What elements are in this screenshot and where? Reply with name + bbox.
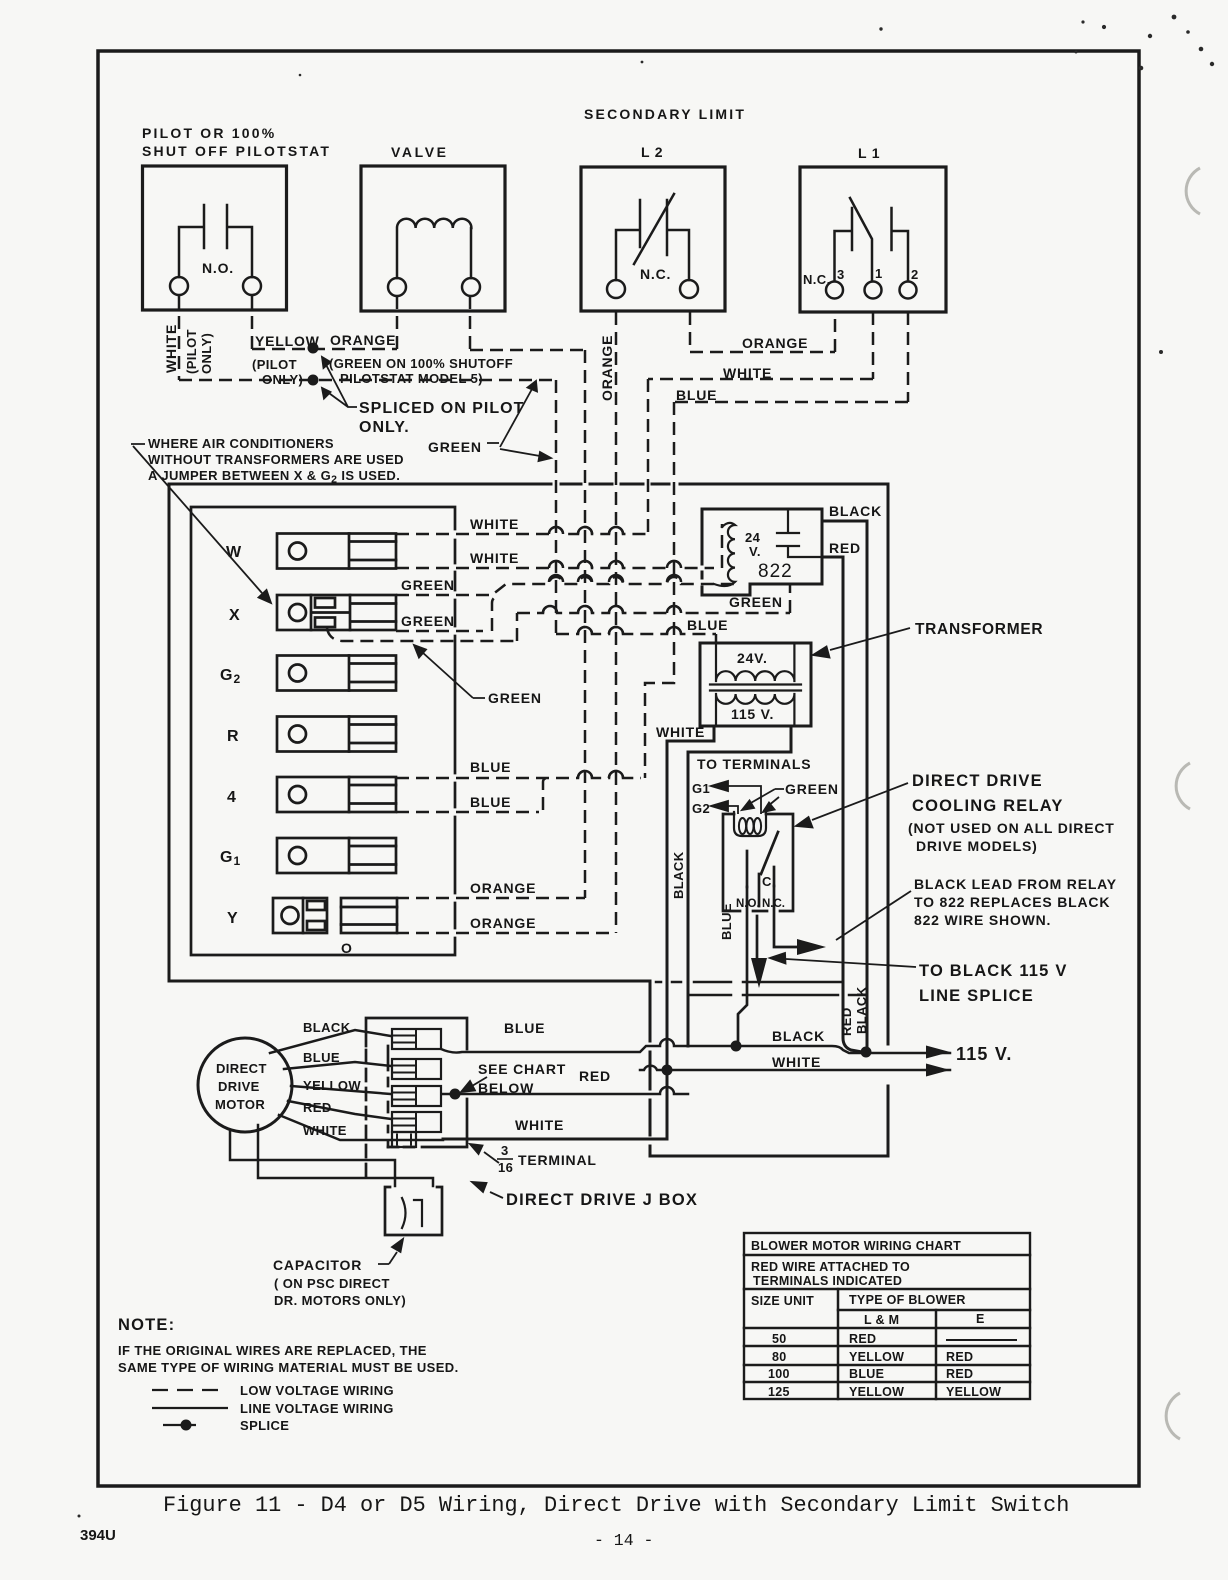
- svg-text:O: O: [341, 940, 353, 956]
- arrow j-box label: [472, 1182, 503, 1198]
- svg-text:SPLICED ON PILOT: SPLICED ON PILOT: [359, 400, 524, 417]
- arrow black lead: [836, 891, 911, 940]
- svg-text:A JUMPER BETWEEN X & G2 IS USE: A JUMPER BETWEEN X & G2 IS USED.: [148, 468, 400, 486]
- green label dash and arrows: [749, 789, 784, 806]
- svg-text:Y: Y: [227, 910, 239, 927]
- svg-text:GREEN: GREEN: [401, 577, 455, 593]
- svg-text:BLACK: BLACK: [854, 986, 869, 1034]
- svg-text:Figure 11 - D4 or D5 Wiring, D: Figure 11 - D4 or D5 Wiring, Direct Driv…: [163, 1493, 1069, 1518]
- relay armature: [761, 832, 778, 874]
- svg-text:WHITE: WHITE: [656, 724, 705, 740]
- wire spliced corner down: [555, 380, 558, 634]
- legend solid sample: [152, 1407, 228, 1409]
- svg-text:ORANGE: ORANGE: [330, 332, 396, 348]
- dashed wires from terminal strip: [327, 524, 790, 933]
- svg-text:RED: RED: [303, 1100, 332, 1115]
- wire orange-1 from Y top: [396, 897, 585, 900]
- svg-text:C: C: [762, 874, 772, 889]
- j-box terminal 4: [392, 1112, 441, 1132]
- wire pilot-left white down: [178, 296, 181, 380]
- svg-text:115 V.: 115 V.: [731, 706, 774, 722]
- table row lines: [744, 1255, 1030, 1382]
- L2 switch N.C.: [616, 200, 689, 280]
- wire orange L2 to L1-3: [690, 351, 835, 354]
- wire valve-right orange down: [469, 296, 472, 350]
- L1 box: [800, 167, 946, 312]
- svg-text:YELLOW: YELLOW: [849, 1385, 904, 1399]
- relay box: [723, 814, 793, 911]
- wire black 115v segments: [656, 981, 842, 984]
- svg-text:BLUE: BLUE: [303, 1050, 340, 1065]
- svg-text:BLACK: BLACK: [829, 503, 882, 519]
- L2 N.C. slash: [634, 194, 674, 264]
- svg-text:YELLOW: YELLOW: [849, 1350, 904, 1364]
- terminal W: [277, 534, 396, 569]
- arrow capacitor label: [378, 1239, 403, 1264]
- svg-text:G1: G1: [692, 781, 710, 796]
- arrow green label down to wire: [500, 449, 540, 456]
- legend splice dot: [181, 1420, 192, 1431]
- wire white L1-1 horizontal: [648, 378, 873, 381]
- svg-text:BLACK LEAD FROM RELAY: BLACK LEAD FROM RELAY: [914, 876, 1117, 892]
- wire L1-2 blue down: [907, 312, 910, 402]
- svg-text:BLUE: BLUE: [849, 1367, 884, 1381]
- arrow to black 115v: [786, 959, 916, 967]
- svg-text:PILOT OR 100%: PILOT OR 100%: [142, 125, 276, 141]
- scan punch marks: [1166, 168, 1200, 1439]
- terminal strip box: [191, 507, 455, 955]
- wire L1-1 white down: [872, 312, 875, 379]
- note block: [118, 1316, 459, 1375]
- valve coil: [397, 219, 471, 278]
- 822 outline: [702, 509, 822, 595]
- svg-text:PILOTSTAT MODEL 5): PILOTSTAT MODEL 5): [340, 371, 483, 386]
- wire orange-2 from Y bottom: [396, 932, 616, 935]
- j-box 3/16 terminal: [392, 1132, 416, 1147]
- wire valve-left orange down: [396, 296, 399, 349]
- direct drive motor: [198, 1038, 292, 1132]
- wire white pilot-only horizontal: [179, 379, 556, 382]
- svg-text:(NOT USED ON ALL DIRECT: (NOT USED ON ALL DIRECT: [908, 820, 1115, 836]
- svg-text:TO BLACK 115 V: TO BLACK 115 V: [919, 962, 1068, 980]
- transformer 115V winding: [716, 694, 794, 726]
- relay NO contact bar: [746, 851, 749, 887]
- svg-text:RED: RED: [849, 1332, 876, 1346]
- 3/16 terminal label: [498, 1143, 597, 1175]
- svg-text:100: 100: [768, 1367, 790, 1381]
- transformer outline: [700, 643, 811, 726]
- splice dot white line: [662, 1065, 673, 1076]
- svg-text:LOW VOLTAGE WIRING: LOW VOLTAGE WIRING: [240, 1383, 394, 1398]
- svg-text:BLUE: BLUE: [676, 387, 717, 403]
- relay NO lead down to splice: [738, 887, 747, 1046]
- splice dot yellow-orange: [308, 343, 319, 354]
- table dash cell: [947, 1339, 1016, 1341]
- transformer white lead + j-box white wire: [443, 726, 714, 1139]
- svg-text:80: 80: [772, 1350, 787, 1364]
- svg-text:4: 4: [227, 789, 237, 806]
- splice dots top: [308, 343, 319, 386]
- svg-text:BLUE: BLUE: [470, 794, 511, 810]
- pilotstat switch contacts N.O.: [179, 205, 252, 277]
- svg-text:DRIVE: DRIVE: [218, 1079, 260, 1094]
- enclosure bottom-left edge: [169, 980, 650, 983]
- right side callout texts: [908, 621, 1117, 1005]
- wire hop arcs (solid overdraw): [543, 527, 681, 778]
- svg-text:GREEN: GREEN: [428, 439, 482, 455]
- svg-text:DRIVE MODELS): DRIVE MODELS): [916, 838, 1038, 854]
- relay C big down arrowhead: [751, 958, 767, 988]
- splice dot black line: [861, 1047, 872, 1058]
- svg-text:TYPE OF BLOWER: TYPE OF BLOWER: [849, 1293, 966, 1307]
- svg-text:WHITE: WHITE: [470, 550, 519, 566]
- svg-text:LINE SPLICE: LINE SPLICE: [919, 987, 1034, 1005]
- svg-text:WHITE: WHITE: [303, 1123, 347, 1138]
- svg-text:3: 3: [837, 267, 845, 282]
- svg-text:SECONDARY LIMIT: SECONDARY LIMIT: [584, 106, 746, 122]
- svg-text:YELLOW: YELLOW: [946, 1385, 1001, 1399]
- valve box: [361, 166, 505, 311]
- arrow cooling relay: [812, 783, 908, 820]
- svg-text:115 V.: 115 V.: [956, 1044, 1013, 1064]
- wire green-3 from X bottom tab: [327, 584, 790, 641]
- arrow 3/16 to terminal: [470, 1144, 499, 1163]
- wire motor red: [288, 1101, 391, 1119]
- splice dot blue-relay: [731, 1041, 742, 1052]
- pilotstat terminal circles: [170, 277, 188, 295]
- legend dashed sample: [152, 1389, 225, 1391]
- transformer core lines: [710, 685, 801, 691]
- j-box terminal 2: [392, 1059, 441, 1079]
- wire black 115v out: [736, 1046, 950, 1053]
- svg-text:WHITE: WHITE: [515, 1117, 564, 1133]
- svg-text:ORANGE: ORANGE: [599, 335, 615, 401]
- G2 arrow line: [728, 806, 738, 814]
- j-box terminal 1: [392, 1029, 441, 1049]
- wire motor bottom leads to capacitor: [230, 1125, 433, 1186]
- arrow green label up to corner: [500, 389, 532, 447]
- enclosure right edge: [887, 484, 890, 1156]
- svg-text:DIRECT: DIRECT: [216, 1061, 267, 1076]
- wire red-jbox 995 link: [688, 994, 865, 997]
- relay C lead down arrow shaft: [757, 874, 759, 960]
- svg-text:ONLY): ONLY): [199, 333, 214, 374]
- svg-text:N.O.: N.O.: [202, 260, 234, 276]
- svg-text:CAPACITOR: CAPACITOR: [273, 1257, 362, 1273]
- svg-text:TO TERMINALS: TO TERMINALS: [697, 756, 811, 772]
- svg-text:WHERE AIR CONDITIONERS: WHERE AIR CONDITIONERS: [148, 436, 334, 451]
- 822 relay unit: [702, 509, 867, 1052]
- wire j-box red riser: [443, 1087, 688, 1094]
- transformer black lead 115V right: [688, 726, 791, 1046]
- wire red from 822: [822, 557, 862, 1052]
- svg-text:RED: RED: [946, 1350, 973, 1364]
- arrows G1 G2 green: [711, 781, 784, 814]
- svg-text:(GREEN ON 100% SHUTOFF: (GREEN ON 100% SHUTOFF: [329, 356, 513, 371]
- fraction bar: [497, 1158, 513, 1160]
- 822 24V coil zigzag: [714, 523, 735, 586]
- svg-text:RED: RED: [829, 540, 861, 556]
- callout arrows right side: [770, 628, 916, 967]
- wire black from 822: [822, 521, 867, 1048]
- wire orange vertical (valve): [584, 350, 587, 898]
- svg-text:WITHOUT TRANSFORMERS ARE USED: WITHOUT TRANSFORMERS ARE USED: [148, 452, 404, 467]
- secondary limit L2 box: [581, 167, 725, 311]
- wire blue-1 from 4 top: [396, 771, 641, 778]
- svg-text:- 14 -: - 14 -: [594, 1531, 653, 1550]
- terminal G1: [277, 838, 396, 873]
- relay NC lead to arrow: [774, 886, 797, 947]
- svg-text:GREEN: GREEN: [729, 594, 783, 610]
- svg-text:N.C.: N.C.: [762, 898, 785, 910]
- wire yellow-orange splice horizontal: [252, 348, 397, 351]
- capacitor body: [385, 1187, 442, 1235]
- svg-text:WHITE: WHITE: [772, 1054, 821, 1070]
- wire L2-right down: [689, 312, 692, 352]
- svg-text:125: 125: [768, 1385, 790, 1399]
- pilotstat box: [143, 166, 287, 310]
- transformer: [443, 643, 811, 1139]
- bottom area wires: [441, 982, 950, 1094]
- relay NC big arrowhead: [797, 939, 826, 955]
- wire motor black: [270, 1030, 391, 1053]
- j-box wire labels: [303, 1020, 1013, 1138]
- splice dot see-chart: [450, 1089, 461, 1100]
- terminal G2: [277, 656, 396, 691]
- svg-text:IF THE ORIGINAL WIRES ARE REPL: IF THE ORIGINAL WIRES ARE REPLACED, THE: [118, 1343, 427, 1358]
- svg-text:E: E: [976, 1312, 985, 1326]
- svg-text:WHITE: WHITE: [470, 516, 519, 532]
- svg-text:GREEN: GREEN: [401, 613, 455, 629]
- svg-text:W: W: [226, 544, 242, 561]
- svg-text:ORANGE: ORANGE: [470, 880, 536, 896]
- svg-text:L & M: L & M: [864, 1313, 899, 1327]
- svg-text:L 2: L 2: [641, 144, 663, 160]
- svg-text:(PILOT: (PILOT: [184, 329, 199, 374]
- svg-text:822 WIRE SHOWN.: 822 WIRE SHOWN.: [914, 912, 1051, 928]
- svg-text:BLACK: BLACK: [772, 1028, 825, 1044]
- svg-text:VALVE: VALVE: [391, 144, 449, 160]
- svg-text:X: X: [229, 607, 241, 624]
- svg-text:SIZE UNIT: SIZE UNIT: [751, 1294, 814, 1308]
- splice dot white line: [308, 375, 319, 386]
- svg-text:RED: RED: [839, 1007, 854, 1036]
- wire blue vertical long: [645, 402, 674, 778]
- svg-text:MOTOR: MOTOR: [215, 1097, 265, 1112]
- svg-text:DIRECT DRIVE: DIRECT DRIVE: [912, 772, 1043, 790]
- svg-text:BLUE: BLUE: [504, 1020, 545, 1036]
- svg-text:50: 50: [772, 1332, 787, 1346]
- 822 capacitor: [777, 509, 822, 557]
- svg-text:BLUE: BLUE: [470, 759, 511, 775]
- line-voltage enclosure: [169, 484, 888, 1156]
- wire green riser from X bottom: [396, 596, 499, 631]
- relay coil cup: [734, 812, 766, 836]
- svg-text:16: 16: [498, 1160, 513, 1175]
- j-box right and bottom: [422, 1099, 467, 1147]
- svg-text:ORANGE: ORANGE: [742, 335, 808, 351]
- svg-text:N.C.: N.C.: [803, 272, 831, 287]
- svg-text:( ON PSC DIRECT: ( ON PSC DIRECT: [274, 1276, 390, 1291]
- svg-text:394U: 394U: [80, 1527, 116, 1544]
- L1 terminal circles: [826, 282, 843, 299]
- svg-text:G2: G2: [692, 801, 710, 816]
- wire j-box blue to relay splice: [441, 1039, 736, 1053]
- svg-text:SHUT OFF PILOTSTAT: SHUT OFF PILOTSTAT: [142, 143, 331, 159]
- svg-text:TERMINALS INDICATED: TERMINALS INDICATED: [753, 1274, 902, 1288]
- svg-text:TERMINAL: TERMINAL: [518, 1152, 597, 1168]
- capacitor: [385, 1187, 442, 1235]
- arrow see-chart to dot: [461, 1077, 487, 1092]
- svg-text:24V.: 24V.: [737, 650, 768, 666]
- svg-text:DR. MOTORS ONLY): DR. MOTORS ONLY): [274, 1293, 406, 1308]
- svg-text:RED: RED: [946, 1367, 973, 1381]
- svg-text:RED: RED: [579, 1068, 611, 1084]
- terminal labels: [148, 436, 404, 956]
- svg-text:2: 2: [911, 267, 919, 282]
- j-box top: [366, 1018, 467, 1049]
- svg-text:NOTE:: NOTE:: [118, 1316, 175, 1334]
- wire 822 coil top lead: [721, 524, 724, 568]
- table column dividers: [838, 1289, 936, 1399]
- svg-text:822: 822: [758, 561, 793, 582]
- 115v arrowheads: [926, 1046, 950, 1077]
- svg-text:24: 24: [745, 530, 761, 545]
- capacitor plates: [402, 1198, 422, 1228]
- svg-text:GREEN: GREEN: [488, 690, 542, 706]
- svg-text:BLUE: BLUE: [719, 903, 734, 940]
- motor leads to j-box: [230, 1030, 443, 1186]
- direct drive cooling relay: [723, 812, 797, 1046]
- svg-text:GREEN: GREEN: [785, 781, 839, 797]
- svg-text:V.: V.: [749, 544, 761, 559]
- svg-text:SAME TYPE OF WIRING MATERIAL M: SAME TYPE OF WIRING MATERIAL MUST BE USE…: [118, 1360, 459, 1375]
- terminal Y: [273, 898, 327, 933]
- wire white-2 from W bottom: [396, 561, 714, 568]
- svg-text:TRANSFORMER: TRANSFORMER: [915, 621, 1043, 638]
- svg-text:N.O.: N.O.: [736, 898, 760, 910]
- relay coil loops: [739, 818, 746, 834]
- enclosure left edge: [168, 484, 171, 981]
- legend splice sample: [163, 1424, 196, 1426]
- wire blue-2 from 4 bottom: [396, 778, 548, 812]
- G1 arrow line: [728, 786, 761, 814]
- svg-text:LINE VOLTAGE WIRING: LINE VOLTAGE WIRING: [240, 1401, 394, 1416]
- terminal R: [277, 717, 396, 752]
- terminal strip: [191, 507, 455, 955]
- terminal 4: [277, 777, 396, 812]
- svg-text:RED WIRE ATTACHED TO: RED WIRE ATTACHED TO: [751, 1260, 910, 1274]
- svg-text:BLUE: BLUE: [687, 617, 728, 633]
- j-box bottom dashed: [388, 1146, 418, 1149]
- transformer 24V winding: [716, 643, 794, 681]
- svg-text:BLOWER MOTOR WIRING CHART: BLOWER MOTOR WIRING CHART: [751, 1239, 961, 1253]
- wire white vertical to W: [647, 379, 650, 534]
- svg-text:ORANGE: ORANGE: [470, 915, 536, 931]
- top dashed low voltage wiring: [179, 296, 908, 933]
- svg-text:WHITE: WHITE: [163, 324, 179, 373]
- enclosure bottom-right edge: [650, 1155, 888, 1158]
- arrow jumper note to X terminal: [131, 444, 271, 603]
- j-box terminal 3: [392, 1086, 441, 1106]
- svg-text:BLACK: BLACK: [671, 851, 686, 899]
- svg-text:COOLING RELAY: COOLING RELAY: [912, 797, 1064, 815]
- enclosure step riser: [649, 981, 652, 1156]
- svg-text:YELLOW: YELLOW: [303, 1078, 361, 1093]
- wire pilot-right yellow down: [251, 296, 254, 349]
- relay C/NC contact bar: [773, 867, 776, 886]
- wire white 115v out: [640, 1066, 950, 1070]
- wire labels terminal area: [401, 516, 542, 931]
- wire L1-3 up: [834, 312, 837, 352]
- valve terminal circles: [388, 278, 406, 296]
- L2 terminal circles: [607, 280, 625, 298]
- wire blue L1-2 horizontal: [674, 401, 908, 404]
- wire orange valve to vertical: [470, 349, 585, 352]
- wire green-1 from X top: [396, 577, 736, 595]
- svg-text:1: 1: [875, 266, 883, 281]
- leader arrows top: [322, 357, 551, 461]
- svg-text:(PILOT: (PILOT: [252, 357, 297, 372]
- wire motor white: [279, 1115, 443, 1140]
- direct drive j-box: [366, 1018, 467, 1180]
- blower motor wiring chart table: [744, 1233, 1030, 1399]
- svg-text:TO 822 REPLACES BLACK: TO 822 REPLACES BLACK: [914, 894, 1110, 910]
- enclosure top edge: [169, 483, 888, 486]
- wire motor blue: [284, 1062, 391, 1069]
- svg-text:SPLICE: SPLICE: [240, 1418, 289, 1433]
- wire white-1 from W top: [396, 527, 648, 534]
- label GREEN (left): [487, 442, 499, 444]
- arrow transformer: [830, 628, 910, 650]
- wire blue transformer feed: [556, 627, 716, 643]
- terminal X: [277, 595, 396, 630]
- L1 switch contacts: [835, 198, 909, 281]
- svg-text:R: R: [227, 728, 240, 745]
- svg-text:ONLY.: ONLY.: [359, 419, 410, 436]
- svg-text:3: 3: [501, 1143, 509, 1158]
- outer border frame: [98, 51, 1139, 1486]
- svg-text:N.C.: N.C.: [640, 266, 671, 282]
- arrow green-3 label to wire: [414, 645, 485, 698]
- top area wire labels: [142, 106, 919, 436]
- wire orange vertical (L2 left): [615, 312, 618, 933]
- wire motor yellow: [291, 1086, 391, 1094]
- svg-text:L 1: L 1: [858, 145, 880, 161]
- svg-text:BLACK: BLACK: [303, 1020, 351, 1035]
- svg-text:DIRECT DRIVE J BOX: DIRECT DRIVE J BOX: [506, 1191, 698, 1209]
- arrow spliced-on-pilot to dots: [322, 357, 357, 407]
- svg-text:SEE CHART: SEE CHART: [478, 1061, 566, 1077]
- legend: [152, 1390, 228, 1425]
- j-box dashed left walls: [365, 1050, 368, 1180]
